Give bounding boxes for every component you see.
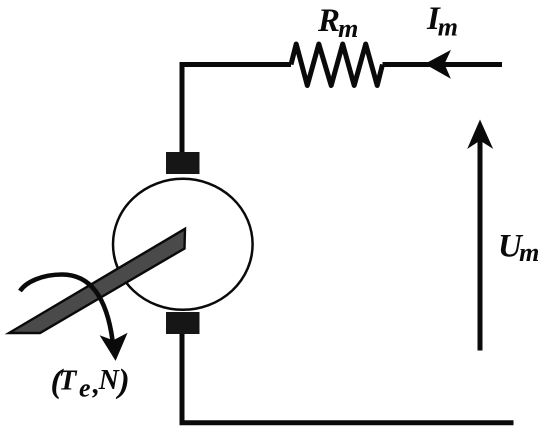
wire top-right (resistor to right end) — [383, 62, 503, 67]
wire top-left (vertical + horizontal to resistor) — [182, 65, 291, 153]
wire bottom (motor to bottom-right) — [182, 334, 514, 423]
resistor Rm zigzag — [291, 44, 383, 86]
current arrowhead Im (pointing left) — [426, 51, 450, 78]
svg-text:N: N — [98, 365, 121, 396]
svg-text:R: R — [317, 3, 340, 39]
motor brush bottom — [166, 312, 200, 334]
svg-text:e: e — [79, 373, 91, 402]
rotation arrowhead (pointing down-right) — [101, 334, 127, 360]
motor brush top — [166, 152, 200, 174]
motor body circle — [113, 179, 253, 310]
motor shaft — [9, 229, 185, 333]
svg-text:T: T — [59, 365, 78, 397]
svg-text:m: m — [338, 14, 358, 43]
voltage arrow Um line — [478, 137, 483, 351]
svg-text:): ) — [115, 363, 129, 400]
svg-text:m: m — [519, 238, 539, 267]
rotation curved arrow — [20, 275, 113, 342]
svg-text:m: m — [438, 12, 458, 41]
voltage arrowhead Um (pointing up) — [468, 121, 492, 148]
